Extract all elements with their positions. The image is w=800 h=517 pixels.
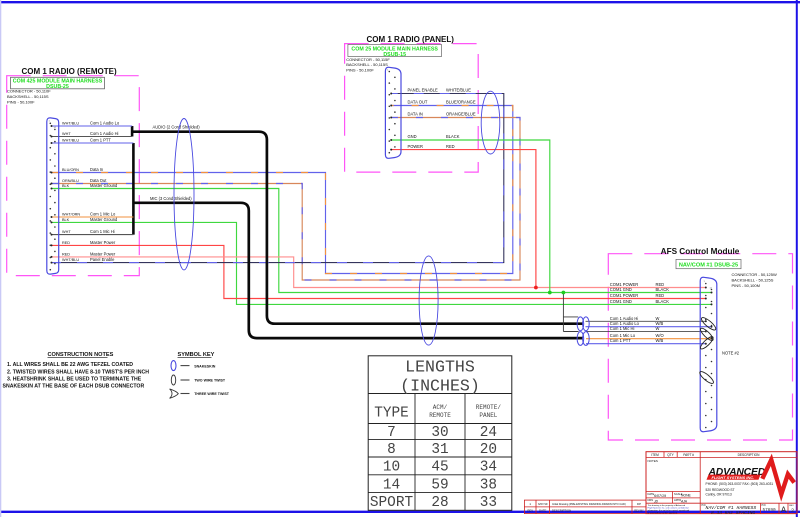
connector P1 COM1 RADIO REMOTE DSUB-25 body	[47, 118, 59, 274]
svg-text:6/07/19: 6/07/19	[654, 494, 666, 498]
svg-text:Com 1 PTT: Com 1 PTT	[90, 137, 111, 142]
wire Master Ground 2 BLK remote to AFS COM1 GND	[51, 222, 712, 304]
svg-text:PINS - 50,100F: PINS - 50,100F	[346, 68, 374, 73]
cable MIC (3 Cond Shielded) thick run	[132, 143, 135, 235]
svg-text:ITEM: ITEM	[651, 453, 659, 457]
svg-text:RED: RED	[62, 252, 70, 256]
svg-text:30: 30	[431, 425, 448, 441]
junction dot ground BLACK at panel feed	[548, 291, 552, 295]
svg-text:2: 2	[791, 508, 794, 514]
title block frame	[646, 452, 797, 514]
svg-text:20: 20	[480, 442, 497, 458]
svg-text:POWER: POWER	[408, 144, 424, 149]
svg-text:6/07/19: 6/07/19	[538, 502, 548, 506]
svg-text:NOTE #2: NOTE #2	[722, 351, 740, 356]
svg-text:WHT: WHT	[62, 132, 71, 136]
svg-text:ACM/: ACM/	[433, 404, 448, 411]
svg-text:QTY: QTY	[667, 453, 674, 457]
svg-text:Initial Drawing (PRE-EXISTING: Initial Drawing (PRE-EXISTING DRAWING DR…	[552, 502, 626, 506]
svg-text:REV: REV	[789, 505, 794, 507]
svg-text:34: 34	[480, 460, 497, 476]
harness boundary box COM 25 MODULE MAIN HARNESS (panel)	[345, 44, 479, 173]
green tag COM 425 MODULE MAIN HARNESS DSUB-25	[11, 77, 105, 89]
wire Com 1 Mic Lo W/O to AFS	[586, 338, 712, 340]
svg-text:REV BY: REV BY	[634, 509, 644, 513]
wire Master Power 2 RED remote to AFS COM1 POWER	[51, 257, 706, 288]
svg-text:WHT/ORN: WHT/ORN	[62, 212, 80, 216]
svg-text:ORANGE/BLUE: ORANGE/BLUE	[446, 112, 476, 117]
wire Data Out ORN/BLU remote pin to panel DATA IN	[51, 118, 520, 281]
svg-text:DATA OUT: DATA OUT	[408, 100, 428, 105]
svg-text:BLUE/ORANGE: BLUE/ORANGE	[446, 100, 476, 105]
connector P3 pins	[705, 283, 707, 285]
wire Data In BLU/ORN remote pin to panel DATA OUT	[51, 106, 513, 274]
svg-text:(INCHES): (INCHES)	[400, 377, 480, 396]
shield termination MIC cable (snakeskin end)	[577, 332, 584, 346]
svg-text:RED: RED	[656, 293, 665, 298]
svg-text:Data In: Data In	[90, 167, 104, 172]
wire shield drain from ground junction to cable shields	[563, 293, 578, 332]
svg-text:BACKSHELL - 50,115S: BACKSHELL - 50,115S	[346, 62, 388, 67]
svg-text:SNAKESKIN AT THE BASE OF EACH: SNAKESKIN AT THE BASE OF EACH DSUB CONNE…	[3, 384, 145, 390]
connector P1 pins	[50, 123, 52, 125]
svg-text:BLACK: BLACK	[446, 134, 460, 139]
wire Master Ground 1 BLK remote to AFS COM1 GND	[51, 189, 712, 293]
wire Com 1 Audio Lo W/B to AFS	[586, 326, 712, 328]
svg-text:33: 33	[480, 495, 497, 511]
svg-text:SNAKESKIN: SNAKESKIN	[194, 364, 216, 368]
pin wire stub + labels Com 1 Mic Hi (WHT) remote	[51, 234, 133, 236]
svg-text:DESCRIPTION: DESCRIPTION	[552, 509, 571, 513]
svg-text:COM1 POWER: COM1 POWER	[610, 293, 638, 298]
svg-text:Panel Enable: Panel Enable	[90, 257, 115, 262]
wire Com 1 Mic Hi W to AFS	[586, 330, 706, 332]
connector P3 AFS NAV/COM DSUB-25 body	[700, 277, 717, 431]
svg-text:TWO WIRE TWIST: TWO WIRE TWIST	[194, 379, 226, 383]
twist symbol spare pair at AFS	[698, 370, 715, 385]
svg-text:NOTES: NOTES	[648, 459, 658, 463]
wire Panel Enable WHT/BLU remote to panel PANEL ENABLE	[51, 94, 504, 263]
svg-text:W: W	[656, 316, 660, 321]
svg-text:TYPE: TYPE	[374, 406, 409, 422]
wire Com 1 PTT W/B to AFS	[586, 343, 706, 345]
symbol key three wire twist	[170, 389, 179, 398]
svg-text:REMOTE: REMOTE	[429, 412, 451, 419]
svg-text:Master Power: Master Power	[90, 240, 116, 245]
svg-text:WHITE/BLUE: WHITE/BLUE	[446, 88, 471, 93]
harness boundary box COM 425 MODULE MAIN HARNESS (remote)	[7, 76, 140, 276]
svg-text:3. HEATSHRINK SHALL BE USED TO: 3. HEATSHRINK SHALL BE USED TO TERMINATE…	[7, 376, 142, 382]
svg-text:Master Power: Master Power	[90, 251, 116, 256]
pin wire stub + labels Com 1 Audio Lo (WHT/BLU) remote	[51, 125, 132, 127]
svg-text:RED: RED	[446, 144, 455, 149]
symbol key snakeskin	[171, 361, 176, 371]
svg-text:Com 1 PTT: Com 1 PTT	[610, 338, 631, 343]
svg-text:WHT/BLU: WHT/BLU	[62, 138, 79, 142]
svg-text:45: 45	[431, 460, 448, 476]
revision table	[524, 500, 646, 513]
svg-text:BLACK: BLACK	[656, 299, 670, 304]
svg-text:DATE: DATE	[539, 509, 546, 513]
svg-text:28: 28	[431, 495, 448, 511]
svg-text:31: 31	[431, 442, 448, 458]
svg-text:Com 1 Mic Hi: Com 1 Mic Hi	[610, 326, 635, 331]
svg-text:PART #: PART #	[683, 453, 694, 457]
svg-text:Com 1 Mic Lo: Com 1 Mic Lo	[90, 211, 116, 216]
svg-text:COM 1 RADIO (REMOTE): COM 1 RADIO (REMOTE)	[22, 67, 117, 76]
svg-text:CONNECTOR - 50,125W: CONNECTOR - 50,125W	[732, 272, 777, 277]
twist symbol two-wire (audio pair) at AFS	[700, 316, 718, 332]
svg-text:PHONE: (503) 263-0037 FAX: (: PHONE: (503) 263-0037 FAX: (503) 263-403…	[706, 482, 774, 486]
svg-text:PINS - 50,100M: PINS - 50,100M	[732, 283, 760, 288]
svg-text:NONE: NONE	[681, 494, 692, 498]
wire panel GND BLACK to ground junction	[391, 140, 550, 293]
svg-text:AJH: AJH	[680, 500, 688, 504]
green tag NAV/COM #1 DSUB-25	[676, 259, 741, 268]
snakeskin symbol over panel harness	[481, 91, 500, 154]
svg-text:PANEL: PANEL	[479, 412, 497, 419]
shield termination AUDIO cable (snakeskin end)	[577, 317, 584, 331]
svg-text:DP: DP	[637, 502, 641, 506]
svg-text:BLK: BLK	[62, 218, 70, 222]
svg-text:8.33 KHz SPACING: 8.33 KHz SPACING	[711, 510, 755, 516]
svg-text:REMOTE/: REMOTE/	[476, 404, 502, 411]
twist symbol three-wire (mic trio) at AFS	[699, 327, 715, 343]
wire Master Power 1 RED remote to AFS COM1 POWER	[51, 245, 706, 298]
svg-text:AFS Control Module: AFS Control Module	[661, 247, 740, 256]
svg-text:COM1 GND: COM1 GND	[610, 287, 632, 292]
svg-text:DESCRIPTION: DESCRIPTION	[738, 453, 760, 457]
svg-text:57690: 57690	[763, 508, 777, 513]
svg-text:AUDIO (2 Cond Shielded): AUDIO (2 Cond Shielded)	[153, 125, 201, 130]
svg-text:DRN: DRN	[648, 498, 654, 502]
svg-text:ORN/BLU: ORN/BLU	[62, 179, 79, 183]
svg-text:WHT/BLU: WHT/BLU	[62, 258, 79, 262]
symbol key two wire twist	[171, 375, 175, 385]
svg-text:DATA IN: DATA IN	[408, 112, 423, 117]
svg-text:THREE WIRE TWIST: THREE WIRE TWIST	[194, 392, 230, 396]
svg-text:Com 1 Mic Hi: Com 1 Mic Hi	[90, 229, 115, 234]
svg-text:7: 7	[387, 425, 396, 441]
svg-text:38: 38	[480, 477, 497, 493]
svg-text:Com 1 Audio Lo: Com 1 Audio Lo	[90, 120, 120, 125]
pin wire stub + labels Com 1 Audio Hi (WHT) remote	[51, 136, 132, 138]
green tag COM 25 MODULE MAIN HARNESS DSUB-15	[348, 45, 442, 57]
svg-text:REV: REV	[527, 509, 533, 513]
connector P2 COM1 RADIO PANEL DSUB-15 body	[385, 67, 401, 158]
svg-text:2. TWISTED WIRES SHALL HAVE 8-: 2. TWISTED WIRES SHALL HAVE 8-10 TWIST'S…	[7, 370, 149, 376]
svg-text:8: 8	[387, 442, 396, 458]
svg-text:FLIGHT SYSTEMS INC.: FLIGHT SYSTEMS INC.	[712, 475, 755, 480]
svg-text:PINS - 50,100F: PINS - 50,100F	[7, 99, 35, 104]
wire panel POWER RED to power junction	[391, 150, 536, 288]
svg-text:24: 24	[480, 425, 497, 441]
pin wire stub + labels Com 1 Mic Lo (WHT/ORN) remote	[51, 216, 133, 218]
svg-text:W: W	[656, 326, 660, 331]
connector P2 pins	[389, 71, 391, 73]
svg-text:LENGTHS: LENGTHS	[405, 358, 475, 377]
svg-text:RED: RED	[62, 241, 70, 245]
svg-text:WHT: WHT	[62, 230, 71, 234]
svg-text:SPORT: SPORT	[370, 495, 414, 511]
svg-text:59: 59	[431, 477, 448, 493]
svg-text:14: 14	[383, 477, 400, 493]
svg-text:Master Ground: Master Ground	[90, 217, 118, 222]
svg-text:This drawing is the property o: This drawing is the property of Advanced	[648, 504, 686, 507]
lengths table frame	[368, 356, 512, 511]
svg-text:CONNECTOR - 50,110F: CONNECTOR - 50,110F	[7, 89, 51, 94]
svg-text:Master Ground: Master Ground	[90, 183, 118, 188]
svg-text:BLU/ORN: BLU/ORN	[62, 168, 79, 172]
svg-text:MIC (3 Cond Shielded): MIC (3 Cond Shielded)	[150, 196, 192, 201]
svg-text:COM 1 RADIO (PANEL): COM 1 RADIO (PANEL)	[367, 35, 455, 44]
svg-text:BLK: BLK	[62, 184, 70, 188]
snakeskin symbol over mid harness	[419, 256, 438, 345]
junction dot ground shield drain tap	[562, 291, 566, 295]
svg-text:Com 1 Audio Hi: Com 1 Audio Hi	[610, 316, 639, 321]
svg-text:CONNECTOR - 50,115F: CONNECTOR - 50,115F	[346, 57, 390, 62]
svg-text:COM1 GND: COM1 GND	[610, 299, 632, 304]
svg-text:GND: GND	[408, 134, 417, 139]
svg-text:P/N: P/N	[762, 504, 766, 507]
svg-text:Flight Systems Inc. and contai: Flight Systems Inc. and contains confide…	[648, 507, 690, 510]
svg-text:WHT/BLU: WHT/BLU	[62, 121, 79, 125]
svg-text:BLACK: BLACK	[656, 287, 670, 292]
svg-text:NAV/COM #1 DSUB-25: NAV/COM #1 DSUB-25	[679, 262, 738, 268]
svg-text:520 REDWOOD ST: 520 REDWOOD ST	[706, 488, 735, 492]
svg-text:BACKSHELL - 50,115S: BACKSHELL - 50,115S	[7, 94, 49, 99]
pin wire stub + labels Com 1 PTT (WHT/BLU) remote	[51, 142, 133, 144]
svg-text:BACKSHELL - 50,125S: BACKSHELL - 50,125S	[732, 278, 774, 283]
svg-text:1. ALL WIRES SHALL BE 22 AWG T: 1. ALL WIRES SHALL BE 22 AWG TEFZEL COAT…	[7, 362, 133, 368]
svg-text:PANEL ENABLE: PANEL ENABLE	[408, 88, 439, 93]
snakeskin symbol over remote harness	[174, 119, 194, 270]
svg-text:A: A	[781, 505, 787, 515]
svg-text:10: 10	[383, 460, 400, 476]
svg-text:Canby, OR 97013: Canby, OR 97013	[706, 493, 732, 497]
harness boundary box NAV/COM #1 (AFS)	[608, 254, 792, 440]
wire Com 1 Audio Hi W to AFS	[586, 320, 706, 322]
junction dot power RED	[534, 286, 538, 290]
svg-text:or used without written approv: or used without written approval.	[648, 512, 678, 515]
svg-text:W/B: W/B	[656, 338, 664, 343]
svg-text:JD: JD	[654, 500, 659, 504]
cable AUDIO (2 Cond Shielded) thick run	[131, 126, 134, 137]
svg-text:Com 1 Audio Hi: Com 1 Audio Hi	[90, 131, 119, 136]
